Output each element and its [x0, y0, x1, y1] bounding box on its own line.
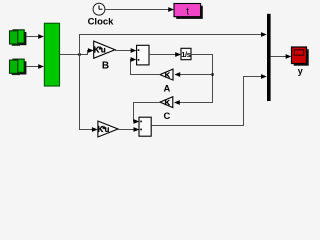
svg-text:1/s: 1/s: [181, 50, 191, 59]
svg-text:A: A: [164, 83, 171, 94]
svg-text:y: y: [298, 66, 303, 76]
svg-text:K: K: [164, 98, 170, 107]
svg-text:t: t: [186, 7, 189, 18]
svg-text:B: B: [102, 61, 109, 72]
svg-text:Clock: Clock: [88, 16, 115, 27]
svg-text:C: C: [164, 110, 171, 121]
svg-text:K*u: K*u: [98, 125, 110, 134]
svg-text:K*u: K*u: [94, 46, 106, 55]
svg-text:K: K: [165, 71, 171, 80]
